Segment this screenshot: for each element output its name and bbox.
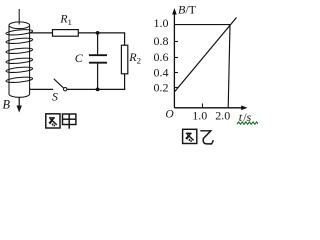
solenoid L (coil in field) (6, 9, 33, 97)
wire bottom rail (67, 88, 125, 90)
y tick 0.4 (174, 72, 178, 74)
resistor R1 (53, 30, 79, 37)
node junction top (dot) (96, 31, 100, 35)
switch S contact circle (63, 88, 66, 91)
squiggle underline (green) (237, 122, 259, 124)
caption 图甲 (Figure A) char 图 (46, 114, 60, 128)
y tick 0.2 (174, 87, 178, 89)
coil turn 1 (6, 29, 33, 36)
caption 图甲 (Figure A) char 甲 (63, 114, 76, 129)
resistor R2 (121, 45, 127, 74)
switch S lever (54, 79, 64, 88)
svg-text:S: S (52, 90, 58, 104)
svg-text:O: O (165, 109, 174, 121)
y tick 0.8 (174, 41, 178, 43)
wire B field line entering top of solenoid (18, 9, 20, 25)
solenoid cylinder body (9, 22, 30, 97)
x axis arrowhead (241, 106, 247, 111)
wire capacitor branch lower (97, 64, 99, 90)
wire solenoid bottom to switch (30, 88, 54, 90)
svg-text:0.4: 0.4 (154, 66, 169, 80)
wire right side down to R2 (124, 33, 126, 45)
svg-text:B: B (3, 98, 11, 112)
svg-text:/s: /s (243, 110, 251, 124)
capacitor C (89, 55, 107, 63)
caption 图乙 (Figure B) char 图 (183, 129, 197, 143)
svg-text:0.8: 0.8 (154, 34, 169, 48)
svg-text:2.0: 2.0 (215, 109, 230, 123)
svg-text:R1: R1 (59, 12, 72, 27)
caption 图乙 (Figure B) char 乙 (200, 131, 213, 144)
graph axes (figure B) (174, 11, 244, 108)
svg-text:C: C (75, 51, 84, 65)
coil turn 2 (6, 37, 33, 44)
wire solenoid top to R1 (30, 32, 53, 34)
wire R1 to right corner (78, 32, 125, 34)
svg-text:1.0: 1.0 (192, 109, 207, 123)
wire capacitor branch upper (97, 33, 99, 54)
coil turn 4 (6, 57, 33, 64)
guide line horizontal at B=1.0 (174, 24, 230, 26)
x tick 1.0 (202, 104, 204, 108)
B(t) line (175, 18, 237, 92)
guide line vertical at t=2.0 (228, 25, 230, 108)
y axis (173, 11, 175, 108)
svg-text:0.6: 0.6 (154, 50, 169, 64)
wire R2 bottom to bottom rail (124, 74, 126, 90)
coil turn 6 (6, 76, 33, 83)
y axis arrowhead (172, 8, 177, 15)
node junction bottom (dot) (96, 88, 100, 92)
svg-text:B/T: B/T (178, 3, 197, 17)
svg-text:0.2: 0.2 (154, 80, 169, 94)
coil turn 5 (6, 66, 33, 73)
y tick 0.6 (174, 57, 178, 59)
coil turn 3 (6, 47, 33, 54)
svg-text:R2: R2 (128, 50, 141, 65)
x axis (174, 107, 244, 109)
B field arrow below solenoid (17, 97, 22, 113)
svg-text:1.0: 1.0 (154, 16, 169, 30)
